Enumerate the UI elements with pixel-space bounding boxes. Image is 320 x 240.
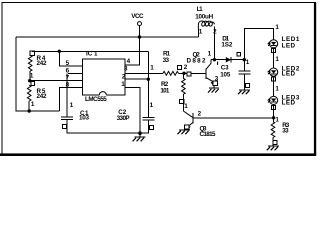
svg-text:33: 33	[163, 57, 170, 64]
capacitor C1	[61, 102, 89, 128]
svg-text:8: 8	[66, 81, 70, 88]
svg-text:1: 1	[150, 102, 154, 109]
wire pin8 feed	[59, 87, 82, 111]
diode D1 1S2	[217, 36, 241, 65]
wire VCC stem	[139, 26, 141, 37]
svg-text:100uH: 100uH	[195, 14, 213, 21]
wire R5 bottom	[28, 101, 30, 111]
svg-text:LED: LED	[282, 71, 296, 78]
svg-text:2: 2	[213, 28, 217, 35]
svg-text:LED: LED	[282, 42, 296, 49]
capacitor C3	[220, 59, 250, 90]
svg-text:1: 1	[275, 56, 279, 63]
wire C1 bottom to ground node	[67, 120, 140, 134]
svg-text:2: 2	[198, 110, 202, 117]
wire pin7 discharge	[30, 80, 83, 82]
resistor R2	[160, 73, 185, 103]
inductor L1	[195, 6, 217, 35]
svg-text:5: 5	[66, 60, 70, 67]
svg-text:105: 105	[220, 71, 231, 78]
resistor R5	[27, 82, 47, 109]
node main ground	[138, 131, 142, 135]
svg-text:1: 1	[208, 51, 212, 58]
pad Q2 base pin	[187, 72, 191, 76]
ground under Q2	[208, 88, 219, 92]
timer IC1 LMC555 body	[83, 51, 126, 103]
svg-text:L1: L1	[197, 6, 203, 13]
wire CV branch down to pin5	[59, 51, 82, 66]
wire C2 bottom	[140, 120, 148, 133]
wire LED3 to R3 node	[273, 105, 275, 122]
svg-text:1: 1	[121, 81, 125, 88]
node R5 ground rail	[28, 109, 31, 112]
transistor Q3 C1815	[183, 103, 216, 138]
node LED drive	[272, 116, 275, 119]
ground under Q3	[178, 129, 191, 134]
svg-text:103: 103	[79, 114, 89, 121]
ground under C3	[238, 90, 250, 94]
wire pin1 ground drop	[125, 87, 140, 133]
ground symbol main	[133, 133, 146, 141]
wire top rail	[16, 36, 198, 38]
wire boost node to D1	[211, 59, 244, 61]
node R2 tap	[182, 72, 185, 75]
wire R1 to Q2 base	[178, 72, 206, 74]
wire Q3 collector run	[193, 117, 273, 119]
LED1	[268, 24, 300, 53]
svg-text:LMC555: LMC555	[85, 96, 107, 103]
svg-text:1: 1	[31, 101, 35, 108]
wire pin3 output	[125, 72, 163, 74]
wire trigger column vertical	[147, 51, 149, 79]
svg-text:1: 1	[275, 24, 279, 31]
border frame	[1, 2, 3, 154]
svg-text:7: 7	[66, 74, 70, 81]
svg-text:101: 101	[160, 88, 169, 95]
node boost	[213, 58, 216, 61]
wire L1 right lead	[213, 27, 215, 60]
svg-text:1: 1	[150, 65, 154, 72]
svg-text:1: 1	[275, 85, 279, 92]
LED2	[268, 56, 300, 81]
transistor Q2 D882	[187, 51, 219, 89]
svg-text:1: 1	[275, 116, 279, 123]
svg-text:C1815: C1815	[200, 131, 216, 138]
power VCC	[131, 13, 144, 25]
wire pin2 stub	[125, 78, 148, 80]
svg-text:D882: D882	[187, 57, 206, 64]
capacitor C2	[117, 102, 155, 129]
svg-text:3: 3	[215, 75, 219, 82]
svg-text:LED: LED	[282, 99, 296, 106]
node VCC rail junction	[138, 35, 141, 38]
svg-text:1: 1	[199, 28, 203, 35]
node R4-R5-pin7	[28, 79, 31, 82]
node CV branch	[58, 50, 61, 53]
svg-text:242: 242	[37, 93, 47, 100]
node pin2 C2 junction	[147, 78, 150, 81]
svg-text:4: 4	[127, 58, 131, 65]
resistor R1	[150, 51, 188, 76]
wire L1 left lead	[197, 30, 199, 38]
LED3	[268, 85, 300, 109]
svg-text:1: 1	[70, 102, 74, 109]
wire LED1 to LED2	[273, 48, 275, 68]
svg-text:1: 1	[30, 73, 34, 80]
wire pin4 to VCC	[125, 37, 140, 65]
wire R4 top to trigger column	[32, 50, 148, 52]
svg-text:1S2: 1S2	[221, 42, 232, 49]
wire R2 to Q3	[182, 94, 184, 111]
wire C2 drop	[147, 79, 149, 117]
resistor R4	[28, 51, 47, 81]
wire C1 drop from pin6	[66, 73, 68, 117]
wire LED2 to LED3	[273, 76, 275, 96]
svg-text:IC 1: IC 1	[86, 51, 98, 58]
svg-text:33: 33	[282, 128, 289, 135]
svg-text:2: 2	[184, 64, 188, 71]
wire pin6 stub	[68, 72, 83, 74]
svg-text:3: 3	[124, 66, 128, 73]
svg-text:VCC: VCC	[131, 13, 144, 20]
wire left loop	[16, 37, 59, 111]
node rectifier out	[243, 58, 246, 61]
svg-text:242: 242	[37, 60, 47, 67]
svg-text:330P: 330P	[117, 115, 130, 122]
wire rectifier to LED top	[244, 29, 273, 60]
svg-text:1: 1	[246, 59, 250, 66]
ground under R3	[267, 146, 279, 150]
svg-text:1: 1	[184, 103, 188, 110]
resistor R3	[271, 116, 290, 146]
